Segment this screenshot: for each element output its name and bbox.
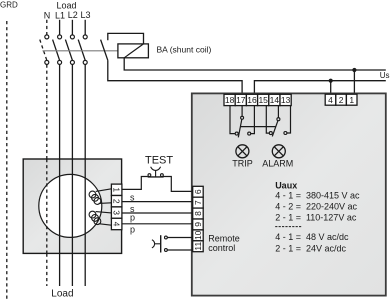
conductor L3 down through CT [84,65,86,287]
breaker pole L3 blade [78,40,85,61]
conductor L2 down through CT [71,65,73,287]
terminal 6 [193,186,204,197]
svg-text:11: 11 [193,242,203,251]
breaker pole L1 blade [53,40,60,61]
svg-text:TRIP: TRIP [232,158,253,168]
breaker pole N blade (dashed) [40,40,47,61]
svg-text:N: N [44,11,51,21]
wire winding2 to CT terminal 3 [96,212,112,213]
wire winding1 to CT terminal 2 [99,202,112,205]
remote control switch actuator hook [152,240,155,248]
svg-text:10: 10 [193,230,203,240]
lamp TRIP [236,145,249,158]
breaker pole L1 fixed contact (top) [58,35,62,39]
svg-text:17: 17 [236,95,246,105]
wire from terminal 16 up and right to terminal 4 line [254,81,385,95]
svg-text:s: s [130,192,135,202]
junction dot on Us line above terminal 1 [352,68,356,72]
conductor N through CT (redrawn over circle, dashed) [46,159,48,253]
trip contact 16 stationary circle [248,132,251,135]
terminal 1 [346,94,357,105]
svg-text:1: 1 [112,187,122,192]
mechanical trip linkage bar [43,50,118,52]
terminal 14 [269,94,280,105]
svg-text:Load: Load [51,288,73,299]
svg-text:p: p [130,212,135,222]
wire terminal 14 down to pivot [277,106,279,118]
CT secondary winding 1 (loops) [89,191,101,204]
breaker pole L2 fixed contact (top) [70,35,74,39]
svg-text:4 - 2 = 220-240V ac: 4 - 2 = 220-240V ac [275,202,357,212]
trip contact blade [238,119,242,137]
CT terminal 2 [111,196,122,207]
wire winding1 to CT terminal 1 [96,189,112,192]
terminal 10 [193,230,204,241]
ground conductor GRD (dashed earth wire) [6,21,8,301]
breaker pole L3 fixed contact (top) [83,35,87,39]
terminal 7 [193,197,204,208]
svg-text:2: 2 [339,95,344,105]
relay unit enclosure (main box) [192,93,386,295]
wire remote switch to terminal 11 [167,249,192,251]
breaker pole N hinge contact (bottom) [45,60,49,64]
svg-text:GRD: GRD [0,1,18,10]
svg-text:L2: L2 [68,10,78,20]
svg-text:6: 6 [193,189,203,194]
terminal 16 [246,94,257,105]
svg-text:13: 13 [281,95,291,105]
breaker pole L2 hinge contact (bottom) [70,60,74,64]
terminal 17 [235,94,246,105]
wire from shunt coil bottom to Us supply line [124,58,386,70]
svg-text:1: 1 [349,95,354,105]
wire TEST button to terminal 6 [163,177,192,192]
wire CT terminal 3 to terminal 8 [122,212,193,214]
svg-text:Uaux: Uaux [275,181,297,191]
remote control switch contact circles [165,236,168,239]
svg-text:p: p [130,225,135,235]
CT toroid circle [39,174,102,237]
breaker pole L2 blade [65,40,72,61]
separator dashes [275,226,302,228]
breaker pole L3 hinge contact (bottom) [83,60,87,64]
terminal 4 [325,94,336,105]
wire from trip switch top to shunt coil (up and over) [108,33,144,44]
svg-text:2 - 1 = 24V ac/dc: 2 - 1 = 24V ac/dc [275,243,346,253]
svg-text:Us: Us [380,71,390,80]
svg-text:18: 18 [225,95,235,105]
breaker pole N fixed contact (top) [45,35,49,39]
conductor L1 down through CT [59,65,61,287]
CT secondary winding 2 (loops) [89,211,101,224]
svg-text:2: 2 [112,199,122,204]
alarm contact 13 stationary circle [284,132,287,135]
alarm contact pivot circle (terminal 14) [277,118,280,121]
TEST button contact circles [148,174,151,177]
svg-text:L3: L3 [81,10,91,20]
wire L1 top stub [59,20,61,35]
svg-text:TEST: TEST [145,154,173,166]
wire L3 top stub [84,20,86,35]
svg-text:BA (shunt coil): BA (shunt coil) [157,45,212,55]
terminal 8 [193,208,204,219]
terminal 13 [280,94,291,105]
trip contact 18 stationary circle [235,132,238,135]
trip contact pivot circle (terminal 17) [241,116,244,119]
wire from junction down to terminal 4 [330,81,332,95]
svg-text:9: 9 [193,222,203,227]
wire CT terminal 2 to terminal 7 [122,201,193,203]
terminal 15 [258,94,269,105]
svg-text:2 - 1 = 110-127V ac: 2 - 1 = 110-127V ac [275,213,357,223]
TEST button bridge [148,176,164,178]
CT terminal 1 [111,184,122,195]
svg-text:8: 8 [193,211,203,216]
svg-text:3: 3 [112,210,122,215]
CT terminal 3 [111,207,122,218]
wire terminal 15 down to NC contact [266,106,269,134]
svg-text:4 - 1 = 380-415 V ac: 4 - 1 = 380-415 V ac [275,190,360,200]
terminal 11 [193,241,204,252]
TEST button stem [155,170,157,176]
wire from trip switch bottom to terminal 17 [108,60,242,94]
wire terminal 16 down to NO contact [251,106,255,134]
remote control switch stem [155,243,161,245]
shunt coil BA body [118,44,148,58]
svg-text:4 - 1 = 48 V ac/dc: 4 - 1 = 48 V ac/dc [275,232,349,242]
svg-text:15: 15 [258,95,268,105]
wire terminal 17 down to pivot [241,106,243,117]
contact coupling bar between trip and alarm contacts [240,126,275,128]
current transformer enclosure [23,159,121,253]
svg-text:4: 4 [328,95,333,105]
wire from junction down to terminal 1 [353,70,355,94]
wire winding2 to CT terminal 4 [99,224,112,226]
svg-text:14: 14 [270,95,280,105]
wire L2 top stub [71,20,73,35]
wire remote switch to terminal 10 [167,237,192,239]
terminal 9 [193,219,204,230]
wire CT terminal 4 to terminal 9 [122,223,193,225]
terminal 18 [224,94,235,105]
breaker pole L1 hinge contact (bottom) [58,60,62,64]
trip switch blade for shunt coil [101,40,108,61]
conductor L2 through CT [71,159,73,253]
wire terminal 13 down to NO contact [287,106,291,133]
CT terminal 4 [111,218,122,229]
wire CT terminal 1 to TEST button [122,177,148,190]
svg-text:control: control [208,243,235,253]
svg-text:ALARM: ALARM [262,158,293,168]
wire N top stub (dashed) [46,20,48,35]
svg-text:7: 7 [193,200,203,205]
terminal 2 [336,94,347,105]
alarm contact 15 stationary circle [269,132,272,135]
TEST button actuator [151,167,161,171]
remote control switch bridge [160,235,162,252]
lamp ALARM [272,145,285,158]
conductor L3 through CT [84,159,86,253]
svg-text:16: 16 [247,95,257,105]
conductor L1 through CT [59,159,61,253]
wire terminal 18 down to NC contact [230,106,235,134]
junction dot above terminal 4 [329,79,333,83]
svg-text:4: 4 [112,222,122,227]
shunt coil BA diagonal [124,44,143,58]
svg-text:L1: L1 [55,11,65,21]
conductor N (dashed) down through CT [46,65,48,287]
alarm contact blade [272,121,278,137]
